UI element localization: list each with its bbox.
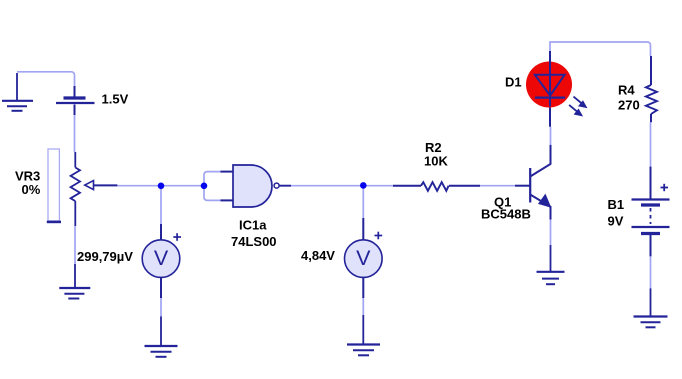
LED D1 anode lead through disc xyxy=(549,51,551,62)
ground below V1 xyxy=(145,316,178,356)
voltmeter V2 plus sign xyxy=(375,232,383,240)
svg-text:1.5V: 1.5V xyxy=(102,92,129,107)
svg-text:299,79µV: 299,79µV xyxy=(77,249,133,264)
svg-text:4,84V: 4,84V xyxy=(301,248,335,263)
op-amp style NAND gate IC1a body xyxy=(233,165,272,207)
wire R4 to battery B1 xyxy=(650,122,652,166)
svg-text:D1: D1 xyxy=(505,75,522,90)
svg-text:IC1a: IC1a xyxy=(239,218,267,233)
svg-text:R4: R4 xyxy=(618,83,635,98)
resistor R4 leads xyxy=(650,56,652,122)
svg-text:10K: 10K xyxy=(424,153,448,168)
wire V2 to ground xyxy=(362,298,364,315)
LED D1 vertical through symbol xyxy=(549,62,551,107)
wire V1 to ground xyxy=(160,298,162,316)
node C junction dot xyxy=(360,182,367,189)
LED D1 emission arrow 1 xyxy=(574,97,587,108)
NAND input pin stubs xyxy=(221,172,234,201)
ground below V2 xyxy=(347,315,380,355)
svg-text:B1: B1 xyxy=(608,197,625,212)
LED D1 triangle xyxy=(535,75,565,96)
voltmeter V2 bottom lead xyxy=(362,277,364,298)
svg-text:74LS00: 74LS00 xyxy=(231,234,277,249)
LED D1 cathode bar xyxy=(535,96,565,98)
wire LED top rail to R4 xyxy=(550,42,651,56)
wire wiper to node A xyxy=(117,185,161,187)
LED D1 cathode lead xyxy=(549,107,551,127)
svg-text:0%: 0% xyxy=(22,182,41,197)
wire GND1 to battery 1.5V xyxy=(17,72,75,86)
wire node A to node B xyxy=(161,185,204,187)
battery B1 bottom lead xyxy=(650,235,652,256)
battery B1 cells xyxy=(632,200,670,234)
VR3 slider knob at 0% xyxy=(47,221,61,224)
resistor R4 zigzag xyxy=(646,85,657,114)
VR3 wiper lead xyxy=(94,184,118,186)
LED D1 red glow disc xyxy=(526,62,572,108)
wire R2 to Q1 base xyxy=(480,185,515,187)
wire node C to R2 xyxy=(363,185,393,187)
transistor Q1 base bar xyxy=(529,168,531,203)
ground below B1 xyxy=(634,288,668,327)
wire node A down to voltmeter V1 xyxy=(160,188,162,224)
wire B1 to ground xyxy=(650,256,652,288)
svg-text:V: V xyxy=(154,246,169,270)
ground below Q1 emitter xyxy=(537,245,565,284)
svg-text:BC548B: BC548B xyxy=(481,207,531,222)
wire VR3 to ground xyxy=(74,226,76,264)
resistor R2 leads xyxy=(393,185,480,187)
wire NAND output to node C xyxy=(280,185,364,187)
LED D1 emission arrow 2 xyxy=(569,105,582,116)
resistor R2 zigzag xyxy=(421,182,449,191)
wire NAND input bracket xyxy=(204,172,221,201)
node B junction dot xyxy=(201,183,208,190)
VR3 wiper arrow xyxy=(85,181,94,190)
svg-text:270: 270 xyxy=(618,98,640,113)
wire collector to LED D1 xyxy=(550,127,552,145)
ground GND1 top-left xyxy=(2,73,33,111)
transistor Q1 emitter xyxy=(530,195,550,220)
battery B1 top lead xyxy=(650,167,652,199)
svg-text:V: V xyxy=(356,246,371,270)
voltmeter V2 top lead xyxy=(362,218,364,241)
voltmeter V2 body xyxy=(345,240,383,278)
battery B1 plus sign xyxy=(661,184,669,191)
transistor Q1 base lead xyxy=(515,185,530,187)
voltmeter V1 plus sign xyxy=(173,233,181,241)
wire emitter to ground xyxy=(550,220,552,246)
wire node C down to voltmeter V2 xyxy=(362,188,364,218)
NAND output bubble xyxy=(274,183,279,188)
ground below VR3 xyxy=(59,264,90,299)
NAND output pin stub xyxy=(280,185,292,187)
voltmeter V1 body xyxy=(142,240,180,278)
battery 1.5V xyxy=(56,86,95,115)
VR3 slider track rectangle xyxy=(48,149,59,221)
svg-text:9V: 9V xyxy=(608,214,624,229)
potentiometer VR3 zigzag and leads xyxy=(71,152,80,226)
wire battery to VR3 xyxy=(74,115,76,152)
voltmeter V1 bottom lead xyxy=(160,277,162,298)
transistor Q1 emitter arrow xyxy=(539,195,551,207)
node A junction dot xyxy=(158,183,165,190)
transistor Q1 collector xyxy=(530,145,550,177)
voltmeter V1 top lead xyxy=(160,224,162,240)
